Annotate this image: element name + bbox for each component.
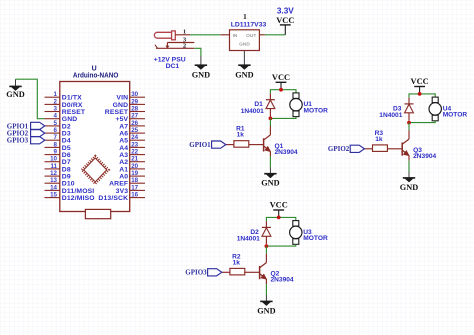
svg-text:15: 15 xyxy=(50,192,57,199)
svg-text:1k: 1k xyxy=(237,132,245,139)
svg-text:A0: A0 xyxy=(119,174,128,181)
svg-text:D11/MOSI: D11/MOSI xyxy=(62,188,95,195)
svg-text:20: 20 xyxy=(131,163,138,170)
svg-text:28: 28 xyxy=(131,106,138,113)
svg-text:1: 1 xyxy=(54,91,58,98)
label D1 1N4001 xyxy=(241,101,264,115)
svg-text:VCC: VCC xyxy=(272,72,290,82)
svg-text:1N4001: 1N4001 xyxy=(237,236,260,243)
svg-text:GND: GND xyxy=(62,116,78,123)
svg-text:1k: 1k xyxy=(375,136,383,143)
svg-text:D5: D5 xyxy=(62,145,71,152)
wire Q3 emitter to ground (circuit 2) xyxy=(408,161,410,172)
connector DC1 +12V PSU barrel jack xyxy=(154,31,194,48)
resistor R1 1k xyxy=(234,141,249,148)
label Q3 2N3904 xyxy=(413,147,436,160)
svg-text:GPIO2: GPIO2 xyxy=(328,145,350,153)
svg-text:VCC: VCC xyxy=(276,15,294,25)
svg-text:GND: GND xyxy=(113,102,129,109)
wire R1 to Q1 base xyxy=(249,144,264,146)
ground GND (regulator) xyxy=(235,57,253,80)
svg-text:GPIO1: GPIO1 xyxy=(189,141,211,149)
junction collector node (circuit 1) xyxy=(269,117,273,121)
svg-text:AREF: AREF xyxy=(109,181,128,188)
ground GND (circuit 3) xyxy=(257,295,275,315)
svg-text:27: 27 xyxy=(131,113,138,120)
svg-text:6: 6 xyxy=(54,127,58,134)
wire DC1 pin 1 to regulator IN xyxy=(190,34,220,36)
svg-text:GND: GND xyxy=(257,305,275,315)
DC1 pin numbers 1 3 2 xyxy=(183,28,187,49)
svg-text:25: 25 xyxy=(131,127,138,134)
label R1 1k xyxy=(236,126,245,139)
power VCC (circuit 2) xyxy=(411,76,429,93)
svg-text:GND: GND xyxy=(239,41,250,47)
label D2 1N4001 xyxy=(237,229,260,243)
svg-text:A6: A6 xyxy=(119,131,128,138)
svg-text:U: U xyxy=(92,65,97,72)
resistor R2 1k xyxy=(230,268,245,275)
svg-text:5: 5 xyxy=(54,120,58,127)
svg-text:Arduino-NANO: Arduino-NANO xyxy=(73,73,119,80)
svg-text:26: 26 xyxy=(131,120,138,127)
svg-text:2: 2 xyxy=(54,98,58,105)
label U3 MOTOR xyxy=(303,229,328,242)
wire U4 to collector node (circuit 2) xyxy=(409,121,435,123)
svg-text:7: 7 xyxy=(54,134,58,141)
transistor Q1 2N3904 xyxy=(264,126,271,156)
wire DC1 pin 2 to ground xyxy=(194,48,201,56)
motor U1 xyxy=(290,93,302,117)
svg-text:13: 13 xyxy=(50,177,57,184)
svg-text:D8: D8 xyxy=(62,166,71,173)
wire U3 to collector node (circuit 3) xyxy=(266,244,295,246)
svg-text:2N3904: 2N3904 xyxy=(275,149,298,156)
svg-text:D3: D3 xyxy=(62,131,71,138)
svg-text:RESET: RESET xyxy=(62,109,86,116)
svg-text:D1/TX: D1/TX xyxy=(62,95,82,102)
svg-text:LD1117V33: LD1117V33 xyxy=(231,22,267,29)
junction VCC node (circuit 3) xyxy=(277,216,281,220)
label R3 1k xyxy=(375,130,384,143)
svg-text:+5V: +5V xyxy=(115,116,128,123)
svg-text:11: 11 xyxy=(50,163,57,170)
svg-text:A3: A3 xyxy=(119,152,128,159)
svg-text:GND: GND xyxy=(261,178,279,188)
svg-text:24: 24 xyxy=(131,134,138,141)
U pins 1-15 (left side) with numbers and names xyxy=(45,91,95,202)
svg-text:21: 21 xyxy=(131,156,138,163)
ground GND (circuit 2) xyxy=(400,172,418,192)
wire Q2 emitter to ground (circuit 3) xyxy=(265,284,267,295)
label Q1 2N3904 xyxy=(275,143,298,156)
svg-text:8: 8 xyxy=(54,141,58,148)
svg-text:10: 10 xyxy=(50,156,57,163)
svg-text:3.3V: 3.3V xyxy=(277,6,294,15)
power VCC (circuit 3) xyxy=(270,200,288,217)
svg-text:2N3904: 2N3904 xyxy=(413,153,436,160)
wire collector node to Q1 (circuit 1) xyxy=(269,118,271,126)
diode D1 1N4001 xyxy=(266,94,275,117)
svg-text:9: 9 xyxy=(54,149,58,156)
diode D2 1N4001 xyxy=(262,221,271,244)
svg-text:1k: 1k xyxy=(233,259,241,266)
svg-text:D9: D9 xyxy=(62,174,71,181)
svg-text:IN: IN xyxy=(233,33,238,39)
svg-text:16: 16 xyxy=(131,192,138,199)
wire GPIO3 flag to R2 (circuit 3) xyxy=(222,271,230,273)
svg-text:30: 30 xyxy=(131,91,138,98)
motor U4 xyxy=(429,97,441,121)
svg-text:1: 1 xyxy=(243,12,247,21)
svg-text:MOTOR: MOTOR xyxy=(303,235,328,242)
svg-text:D7: D7 xyxy=(62,159,71,166)
IC U Arduino-NANO body xyxy=(60,65,130,218)
svg-text:MOTOR: MOTOR xyxy=(443,112,468,119)
svg-text:GND: GND xyxy=(400,182,418,192)
label D3 1N4001 xyxy=(379,105,402,119)
svg-text:D0/RX: D0/RX xyxy=(62,102,83,109)
svg-text:GND: GND xyxy=(192,70,210,80)
power VCC (circuit 1) xyxy=(272,72,290,89)
wire VCC rail to D3 and U4 (circuit 2) xyxy=(409,94,435,98)
svg-text:DC1: DC1 xyxy=(166,63,180,70)
wire GPIO1 flag to R1 (circuit 1) xyxy=(226,144,234,146)
svg-text:D4: D4 xyxy=(62,138,71,145)
wire R3 to Q3 base xyxy=(387,148,402,150)
svg-text:VCC: VCC xyxy=(270,200,288,210)
net flag GPIO2 (circuit 2) xyxy=(328,145,364,153)
label U1 MOTOR xyxy=(304,101,329,114)
svg-text:D13/SCK: D13/SCK xyxy=(98,195,128,202)
wire collector node to Q2 (circuit 3) xyxy=(265,246,267,254)
svg-text:GPIO3: GPIO3 xyxy=(185,269,207,277)
power VCC 3.3V xyxy=(276,6,294,34)
diode D3 1N4001 xyxy=(405,98,414,121)
ground GND (circuit 1) xyxy=(261,167,279,187)
svg-text:GPIO3: GPIO3 xyxy=(7,137,29,145)
wire regulator OUT to VCC 3.3V xyxy=(265,34,285,36)
svg-text:D6: D6 xyxy=(62,152,71,159)
label R2 1k xyxy=(232,253,241,266)
motor U3 xyxy=(290,221,302,245)
svg-text:D12/MISO: D12/MISO xyxy=(62,195,95,202)
label Q2 2N3904 xyxy=(271,271,294,284)
svg-text:12: 12 xyxy=(50,170,57,177)
label U4 MOTOR xyxy=(443,105,468,118)
svg-text:MOTOR: MOTOR xyxy=(304,107,329,114)
svg-text:17: 17 xyxy=(131,184,138,191)
svg-text:VIN: VIN xyxy=(116,95,128,102)
label 1 LD1117V33 xyxy=(231,12,267,29)
svg-text:A2: A2 xyxy=(119,159,128,166)
ground GND (DC1) xyxy=(192,56,210,80)
junction collector node (circuit 3) xyxy=(265,244,269,248)
svg-text:VCC: VCC xyxy=(411,76,429,86)
net flag GPIO3 (to U pin 7) xyxy=(7,137,45,145)
junction VCC node (circuit 2) xyxy=(418,92,422,96)
wire Q1 emitter to ground (circuit 1) xyxy=(269,156,271,167)
svg-text:A1: A1 xyxy=(119,166,128,173)
svg-text:3V3: 3V3 xyxy=(116,188,129,195)
wire U1 to collector node (circuit 1) xyxy=(270,117,296,119)
wire GPIO2 flag to R3 (circuit 2) xyxy=(364,148,372,150)
wire R2 to Q2 base xyxy=(245,271,260,273)
junction collector node (circuit 2) xyxy=(407,121,411,125)
svg-text:23: 23 xyxy=(131,141,138,148)
net flag GPIO3 (circuit 3) xyxy=(185,269,221,277)
svg-text:22: 22 xyxy=(131,149,138,156)
regulator 1 LD1117V33 xyxy=(220,30,265,57)
svg-text:18: 18 xyxy=(131,177,138,184)
transistor Q2 2N3904 xyxy=(260,254,267,284)
svg-text:D10: D10 xyxy=(62,181,75,188)
U pins 30-16 (right side) with numbers and names xyxy=(98,91,145,202)
net flag GPIO1 (to U pin 5) xyxy=(7,122,45,130)
svg-text:A4: A4 xyxy=(119,145,128,152)
wire VCC rail to D1 and U1 (circuit 1) xyxy=(270,90,296,94)
svg-text:3: 3 xyxy=(54,106,58,113)
wire VCC rail to D2 and U3 (circuit 3) xyxy=(266,217,295,221)
svg-text:GND: GND xyxy=(235,70,253,80)
svg-text:RESET: RESET xyxy=(105,109,129,116)
svg-text:1: 1 xyxy=(183,28,186,35)
svg-text:OUT: OUT xyxy=(246,33,256,39)
resistor R3 1k xyxy=(373,145,388,152)
svg-text:GND: GND xyxy=(6,89,24,99)
svg-text:1N4001: 1N4001 xyxy=(241,108,264,115)
svg-text:D2: D2 xyxy=(62,123,71,130)
wire collector node to Q3 (circuit 2) xyxy=(408,123,410,131)
svg-text:4: 4 xyxy=(54,113,58,120)
junction VCC node (circuit 1) xyxy=(279,88,283,92)
label DC1 +12V PSU xyxy=(154,57,186,70)
svg-text:A5: A5 xyxy=(119,138,128,145)
net flag GPIO2 (to U pin 6) xyxy=(7,130,45,138)
transistor Q3 2N3904 xyxy=(402,130,409,160)
svg-text:1N4001: 1N4001 xyxy=(379,112,402,119)
ground GND (Arduino pin 4) xyxy=(6,79,24,99)
svg-text:29: 29 xyxy=(131,98,138,105)
net flag GPIO1 (circuit 1) xyxy=(189,141,225,149)
svg-text:A7: A7 xyxy=(119,123,128,130)
svg-text:14: 14 xyxy=(50,184,57,191)
svg-text:2N3904: 2N3904 xyxy=(271,277,294,284)
svg-text:19: 19 xyxy=(131,170,138,177)
wire GND to U pin 4 xyxy=(16,79,45,119)
